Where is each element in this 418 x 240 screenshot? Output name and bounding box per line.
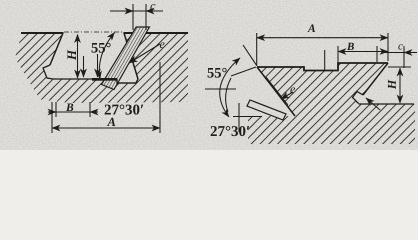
- A dimension right: extension lines: [257, 33, 388, 65]
- c label: [150, 4, 155, 10]
- right dovetail face: [124, 33, 138, 79]
- leader under bar: [238, 103, 240, 132]
- H label: [67, 50, 76, 61]
- template foot thick line on groove bottom: [92, 78, 117, 81]
- left face of tongue: [257, 67, 295, 116]
- left relief notch: [43, 65, 53, 79]
- right base surface / H reference: [359, 103, 415, 105]
- e arrow: [129, 44, 160, 63]
- left dovetail face: [50, 33, 63, 65]
- 55 deg label: [92, 43, 111, 53]
- B dimension line right: [338, 51, 388, 53]
- horizontal angle leg: [205, 88, 236, 90]
- H dimension line: [77, 35, 79, 79]
- dash-dot surface plane across groove: [64, 31, 124, 33]
- e arrow right: [281, 92, 293, 99]
- groove bottom re-stroke over bar: [92, 78, 117, 81]
- top surface line left: [21, 32, 64, 34]
- left face parallel contact line: [266, 77, 288, 105]
- surface extension right of corner: [388, 66, 411, 68]
- block body (female dovetail) hatched section: [15, 33, 188, 103]
- A dimension extension lines: [52, 62, 160, 133]
- B label right: [347, 43, 354, 50]
- recess re-stroke over bar: [117, 79, 138, 83]
- left base surface: [233, 116, 262, 118]
- H label right: [388, 80, 396, 90]
- 27deg30 label left: [105, 105, 144, 115]
- 55 deg label right: [208, 68, 227, 78]
- body with male dovetail tongue, hatched: [248, 63, 415, 144]
- leader vertical 1: [83, 56, 85, 77]
- groove bottom: [53, 78, 117, 80]
- measuring blade (inclined bar): [102, 27, 150, 90]
- A label: [107, 118, 115, 126]
- leader arrow to right face: [366, 98, 380, 110]
- c dimension right: [403, 46, 405, 68]
- 55 deg arc: [99, 33, 114, 80]
- B dimension line: [48, 111, 56, 113]
- right relief notch: [353, 92, 364, 104]
- c dimension extension lines: [133, 4, 146, 30]
- right face of tongue: [363, 63, 388, 95]
- A dimension line: [52, 127, 160, 129]
- c dimension line: [110, 10, 163, 12]
- e label: [160, 42, 165, 48]
- A dimension line right: [257, 37, 388, 39]
- H dimension right: [399, 68, 401, 103]
- c label right: [398, 44, 402, 49]
- 27deg30 label right: [211, 126, 250, 136]
- A label right: [307, 24, 315, 32]
- bottom relief recess right: [117, 79, 138, 83]
- e label right: [290, 87, 295, 93]
- inner arc: [226, 78, 231, 112]
- B dimension extension lines: [56, 102, 90, 117]
- B dimension right: extension line: [337, 46, 339, 62]
- scan grain overlay: [0, 0, 418, 150]
- 55 deg leader to corner: [231, 67, 256, 76]
- face extension above corner: [243, 45, 257, 66]
- leader vertical 2: [97, 54, 99, 77]
- 55 deg arc right: [220, 58, 240, 117]
- measuring bar lying in corner: [247, 100, 286, 120]
- top surface line right: [124, 32, 189, 34]
- top profile line: [257, 63, 388, 71]
- B label: [66, 103, 73, 111]
